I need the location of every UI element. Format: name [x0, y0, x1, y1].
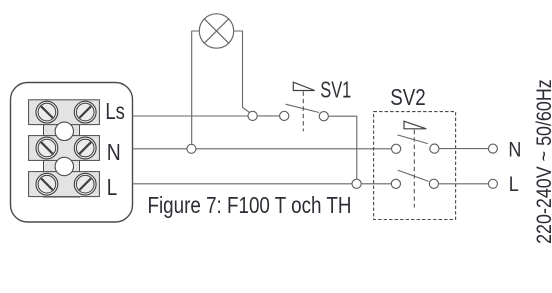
node junction lamp-N — [187, 144, 196, 153]
screw Ls right — [74, 101, 96, 123]
switch SV2b blade — [398, 170, 429, 181]
svg-text:L: L — [509, 172, 519, 196]
switch SV1 left contact — [280, 111, 289, 120]
wire Ls node to SV1 — [257, 115, 279, 117]
terminal N — [488, 144, 497, 153]
terminal strip row N — [29, 136, 100, 161]
svg-text:N: N — [107, 139, 121, 165]
switch SV2a right contact — [430, 144, 439, 153]
svg-text:Ls: Ls — [105, 98, 125, 124]
wire N from node to SV2 — [196, 148, 392, 150]
wire L from block to node — [133, 183, 352, 185]
screw N right — [74, 137, 96, 159]
terminal strip row L — [29, 172, 100, 197]
SV2 dashed enclosure — [374, 112, 456, 220]
wire lamp left lead down to N node — [192, 31, 200, 144]
screw L right — [74, 173, 96, 195]
switch SV1 blade — [286, 104, 319, 112]
switch SV2a left contact — [392, 144, 401, 153]
svg-text:SV2: SV2 — [390, 84, 425, 110]
node junction lamp-Ls — [248, 111, 257, 120]
wire N from block to lamp-neutral node — [133, 148, 187, 150]
cable hole lower — [55, 157, 73, 175]
SV2 actuator dashed link — [413, 130, 415, 208]
cable hole upper — [55, 122, 73, 140]
wire SV2 to terminal N — [439, 148, 488, 150]
switch SV2b left contact — [391, 179, 400, 188]
screw N left — [36, 137, 58, 159]
wire SV1 output to L node — [328, 116, 356, 179]
terminal block X1 housing — [11, 83, 133, 223]
svg-text:N: N — [508, 137, 521, 161]
lamp E1 — [199, 14, 233, 48]
svg-text:SV1: SV1 — [320, 77, 351, 103]
terminal strip row Ls — [29, 100, 100, 125]
svg-text:Figure 7: F100 T och TH: Figure 7: F100 T och TH — [148, 192, 352, 218]
screw Ls left — [36, 101, 58, 123]
SV2 actuator flag — [404, 121, 426, 129]
wire SV2 to terminal L — [439, 183, 489, 185]
SV1 actuator dashed link — [302, 92, 304, 132]
switch SV2b right contact — [429, 179, 438, 188]
node junction SV1-L — [352, 179, 361, 188]
SV1 actuator flag — [293, 82, 314, 90]
wire lamp right lead down to Ls node — [234, 31, 250, 112]
terminal block middle connector — [44, 100, 80, 197]
switch SV1 right contact — [319, 112, 328, 121]
wire L from node to SV2 — [361, 183, 391, 185]
svg-text:220-240V ~ 50/60Hz: 220-240V ~ 50/60Hz — [532, 79, 552, 244]
terminal L — [488, 179, 497, 188]
screw L left — [36, 173, 58, 195]
wire Ls from block to lamp node — [133, 115, 248, 117]
switch SV2a blade — [397, 135, 427, 144]
svg-text:L: L — [107, 174, 118, 200]
